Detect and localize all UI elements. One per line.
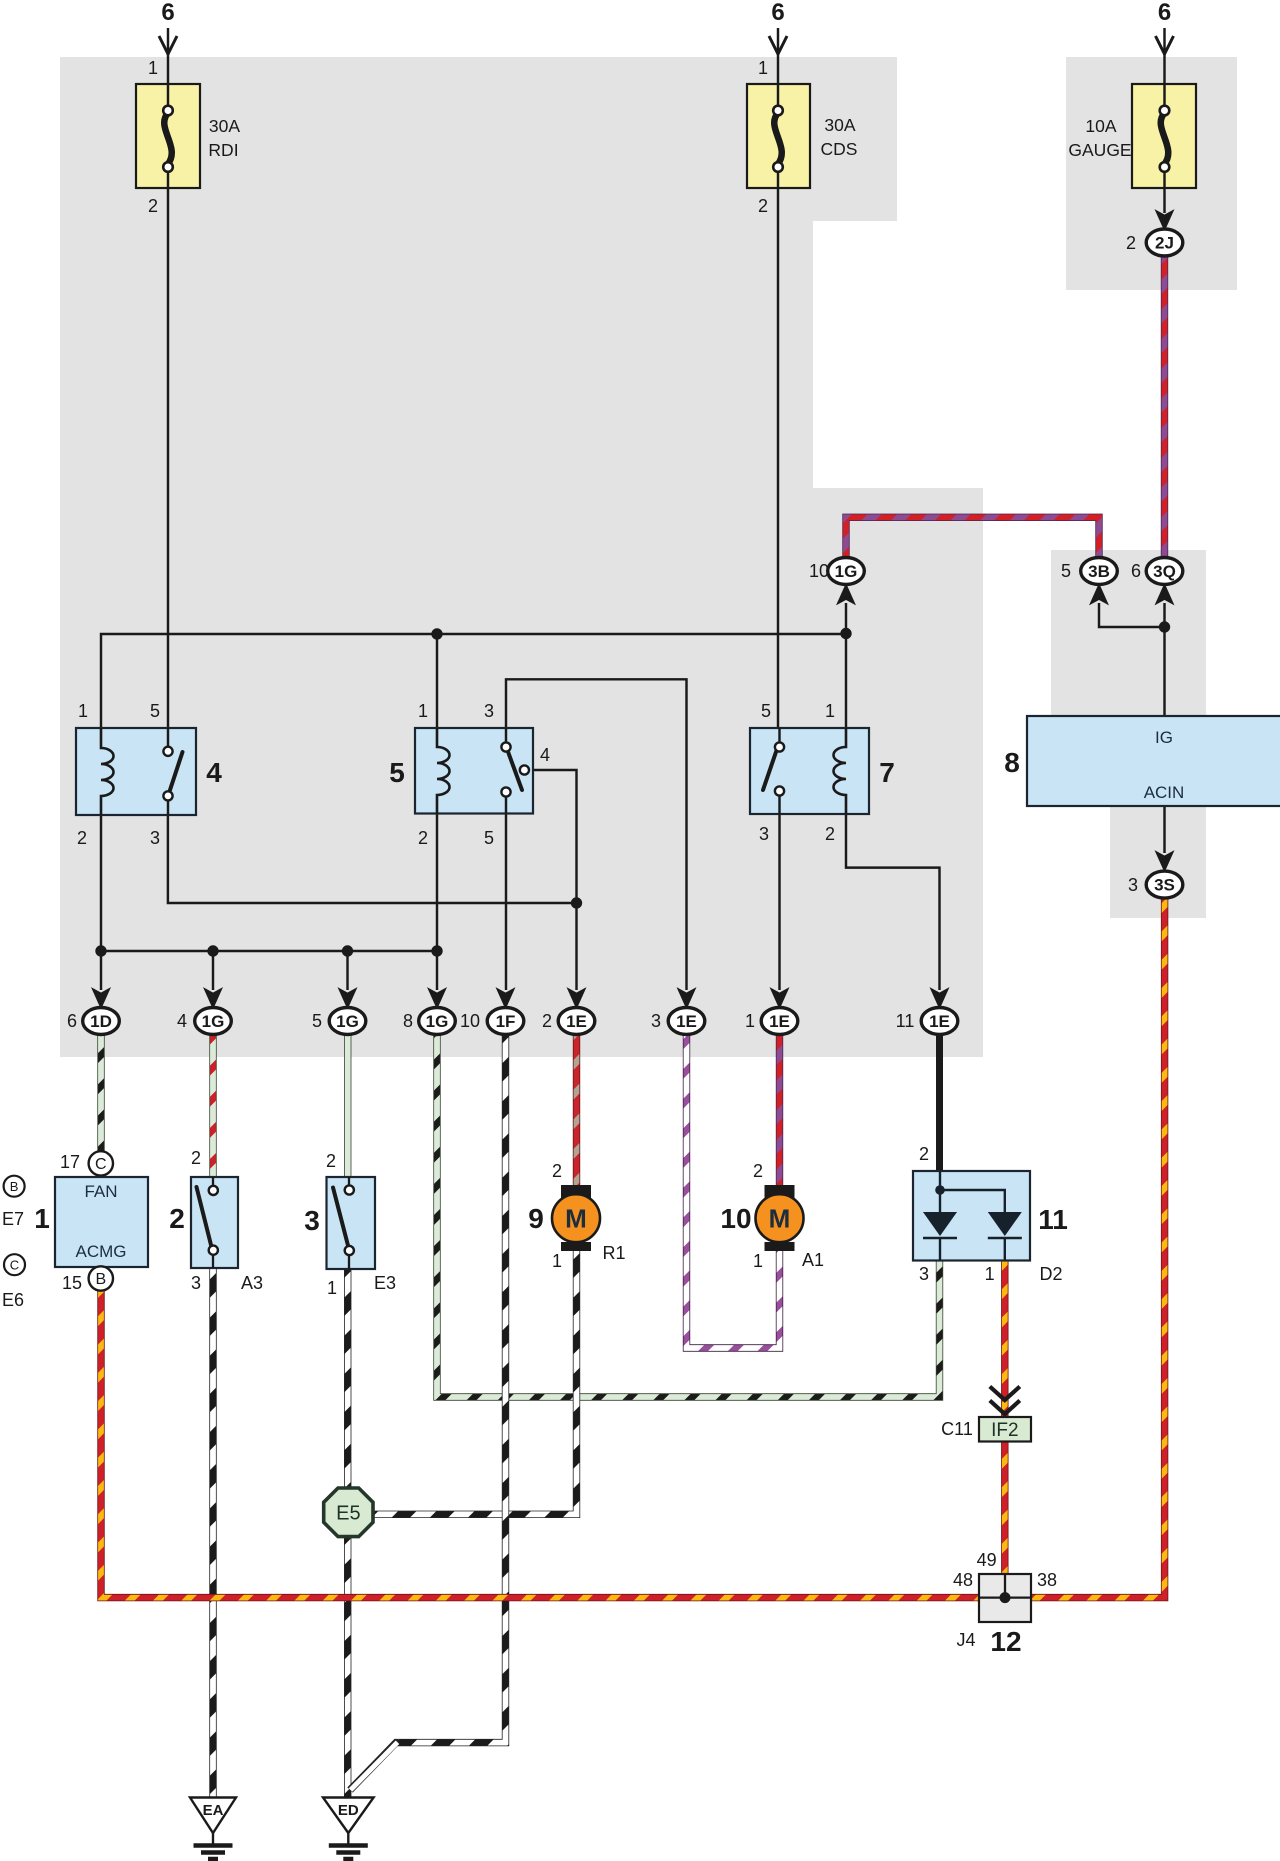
svg-text:2: 2	[418, 828, 428, 848]
svg-text:6: 6	[1158, 0, 1171, 26]
svg-text:5: 5	[389, 757, 405, 788]
svg-text:1G: 1G	[202, 1012, 225, 1031]
svg-text:2: 2	[1126, 233, 1136, 253]
svg-text:48: 48	[953, 1570, 973, 1590]
svg-text:M: M	[565, 1204, 587, 1234]
svg-text:C: C	[10, 1258, 19, 1273]
svg-text:2: 2	[825, 824, 835, 844]
svg-text:30A: 30A	[209, 116, 240, 136]
svg-text:1: 1	[418, 701, 428, 721]
svg-text:8: 8	[403, 1011, 413, 1031]
svg-text:1: 1	[34, 1203, 50, 1234]
svg-text:C: C	[95, 1156, 107, 1173]
svg-text:1G: 1G	[835, 562, 858, 581]
svg-text:1G: 1G	[336, 1012, 359, 1031]
svg-text:D2: D2	[1039, 1264, 1062, 1284]
svg-text:11: 11	[1038, 1204, 1068, 1235]
svg-text:6: 6	[67, 1011, 77, 1031]
svg-text:17: 17	[60, 1152, 80, 1172]
svg-text:A3: A3	[241, 1273, 263, 1293]
svg-text:IG: IG	[1155, 728, 1173, 747]
svg-text:GAUGE: GAUGE	[1068, 140, 1131, 160]
svg-text:10: 10	[809, 561, 829, 581]
svg-text:1: 1	[753, 1251, 763, 1271]
svg-text:ACIN: ACIN	[1144, 783, 1185, 802]
svg-text:2: 2	[148, 196, 158, 216]
svg-text:C11: C11	[941, 1419, 973, 1439]
svg-text:5: 5	[761, 701, 771, 721]
svg-text:1F: 1F	[496, 1012, 516, 1031]
svg-text:3: 3	[1128, 875, 1138, 895]
svg-text:2: 2	[758, 196, 768, 216]
svg-text:1: 1	[825, 701, 835, 721]
svg-text:2: 2	[753, 1161, 763, 1181]
svg-text:7: 7	[879, 757, 895, 788]
svg-text:RDI: RDI	[208, 140, 238, 160]
svg-text:1: 1	[552, 1251, 562, 1271]
svg-text:1E: 1E	[769, 1012, 790, 1031]
svg-text:1: 1	[758, 58, 768, 78]
svg-text:10A: 10A	[1085, 116, 1116, 136]
svg-text:3: 3	[484, 701, 494, 721]
svg-text:1: 1	[148, 58, 158, 78]
svg-text:EA: EA	[203, 1802, 224, 1819]
svg-text:E7: E7	[2, 1209, 24, 1229]
svg-text:2: 2	[919, 1144, 929, 1164]
svg-text:3: 3	[651, 1011, 661, 1031]
svg-text:5: 5	[484, 828, 494, 848]
svg-text:2: 2	[77, 828, 87, 848]
svg-text:J4: J4	[956, 1630, 975, 1650]
svg-text:4: 4	[206, 757, 222, 788]
svg-text:E5: E5	[336, 1503, 360, 1525]
svg-text:11: 11	[896, 1011, 915, 1031]
svg-text:3: 3	[919, 1264, 929, 1284]
svg-text:49: 49	[977, 1550, 997, 1570]
svg-text:38: 38	[1037, 1570, 1057, 1590]
svg-text:10: 10	[460, 1011, 480, 1031]
svg-text:1G: 1G	[426, 1012, 449, 1031]
svg-text:B: B	[10, 1179, 19, 1194]
svg-text:2J: 2J	[1155, 234, 1174, 253]
svg-text:3: 3	[759, 824, 769, 844]
svg-text:12: 12	[990, 1626, 1021, 1657]
svg-text:3: 3	[304, 1205, 320, 1236]
svg-text:FAN: FAN	[84, 1182, 117, 1201]
svg-text:1E: 1E	[676, 1012, 697, 1031]
svg-text:1E: 1E	[566, 1012, 587, 1031]
svg-text:5: 5	[150, 701, 160, 721]
svg-text:3Q: 3Q	[1153, 562, 1176, 581]
svg-text:15: 15	[62, 1273, 82, 1293]
svg-text:6: 6	[771, 0, 784, 26]
svg-text:5: 5	[1061, 561, 1071, 581]
svg-text:2: 2	[191, 1148, 201, 1168]
svg-text:3B: 3B	[1088, 562, 1110, 581]
svg-text:8: 8	[1004, 747, 1020, 778]
svg-text:1: 1	[327, 1278, 337, 1298]
svg-text:2: 2	[542, 1011, 552, 1031]
svg-text:R1: R1	[602, 1243, 625, 1263]
svg-text:1: 1	[985, 1264, 995, 1284]
svg-text:3: 3	[191, 1273, 201, 1293]
svg-text:5: 5	[312, 1011, 322, 1031]
svg-text:10: 10	[720, 1203, 751, 1234]
svg-text:4: 4	[540, 745, 550, 765]
svg-text:6: 6	[1131, 561, 1141, 581]
svg-text:30A: 30A	[824, 115, 855, 135]
svg-text:M: M	[769, 1204, 791, 1234]
svg-text:4: 4	[177, 1011, 187, 1031]
svg-text:ED: ED	[338, 1802, 359, 1819]
svg-text:2: 2	[552, 1161, 562, 1181]
svg-text:2: 2	[326, 1151, 336, 1171]
svg-text:1D: 1D	[90, 1012, 112, 1031]
svg-text:1E: 1E	[929, 1012, 950, 1031]
svg-text:E6: E6	[2, 1290, 24, 1310]
svg-text:E3: E3	[374, 1273, 396, 1293]
svg-text:3S: 3S	[1154, 876, 1175, 895]
svg-text:1: 1	[745, 1011, 755, 1031]
svg-text:B: B	[95, 1271, 106, 1288]
svg-text:IF2: IF2	[991, 1420, 1018, 1441]
svg-text:1: 1	[78, 701, 88, 721]
svg-text:2: 2	[169, 1203, 185, 1234]
svg-text:CDS: CDS	[821, 139, 858, 159]
svg-text:A1: A1	[802, 1250, 824, 1270]
svg-text:6: 6	[161, 0, 174, 26]
svg-text:9: 9	[528, 1203, 544, 1234]
svg-text:3: 3	[150, 828, 160, 848]
svg-text:ACMG: ACMG	[76, 1242, 127, 1261]
